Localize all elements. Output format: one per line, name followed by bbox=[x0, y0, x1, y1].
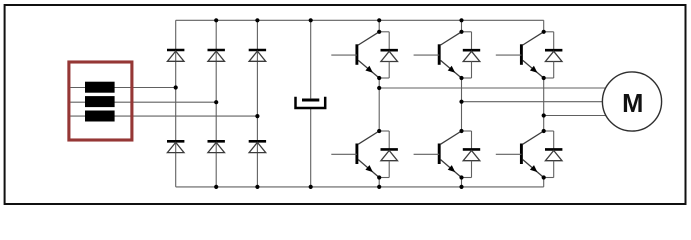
diode D8 bbox=[379, 131, 398, 178]
wire inverter leg 2 upper drop bbox=[461, 20, 463, 32]
wire motor phase 2 output bbox=[462, 101, 608, 103]
diode D11 bbox=[544, 32, 563, 78]
transistor Q1 bbox=[331, 32, 379, 78]
transistor Q3 bbox=[414, 32, 462, 78]
node leg 2 emitter top bbox=[459, 76, 463, 80]
diode D1 bbox=[167, 50, 184, 61]
transistor Q4 bbox=[414, 131, 462, 178]
transistor Q2 bbox=[331, 131, 379, 178]
wire inverter leg 3 upper drop bbox=[543, 20, 545, 32]
diode D4 bbox=[167, 141, 184, 152]
source bar 2 bbox=[85, 96, 115, 107]
node leg 1 emitter top bbox=[377, 76, 381, 80]
diode D6 bbox=[249, 141, 266, 152]
node motor phase 3 tap bbox=[542, 113, 546, 117]
three-phase source box bbox=[69, 62, 132, 140]
transistor Q5 bbox=[496, 32, 544, 78]
capacitor C1 bbox=[296, 97, 326, 108]
node AC phase 3 bbox=[255, 114, 259, 118]
junction bottom rail 5 bbox=[459, 185, 463, 189]
junction top rail 3 bbox=[309, 18, 313, 22]
wire rectifier leg 1 bbox=[175, 20, 177, 187]
node leg 2 collector top bbox=[459, 30, 463, 34]
junction top rail 2 bbox=[255, 18, 259, 22]
source bar 3 bbox=[85, 111, 115, 122]
diode D5 bbox=[208, 141, 225, 152]
junction bottom rail 4 bbox=[377, 185, 381, 189]
wire motor phase 3 output bbox=[544, 115, 608, 117]
wire DC+ top rail bbox=[176, 19, 544, 21]
node leg 3 emitter top bbox=[542, 76, 546, 80]
node leg 3 collector top bbox=[542, 30, 546, 34]
node motor phase 1 tap bbox=[377, 86, 381, 90]
junction top rail 1 bbox=[214, 18, 218, 22]
svg-text:M: M bbox=[622, 90, 643, 118]
wire rectifier leg 2 bbox=[215, 20, 217, 187]
node leg 1 collector top bbox=[377, 30, 381, 34]
junction bottom rail 1 bbox=[214, 185, 218, 189]
wire inverter leg 3 midpoint bbox=[543, 78, 545, 131]
wire motor phase 1 output bbox=[379, 87, 607, 89]
node leg 3 collector bottom bbox=[542, 129, 546, 133]
node AC phase 1 bbox=[174, 85, 178, 89]
wire inverter leg 2 lower drop bbox=[461, 178, 463, 187]
node leg 1 emitter bottom bbox=[377, 175, 381, 179]
junction bottom rail 2 bbox=[255, 185, 259, 189]
wire AC phase 3 input bbox=[70, 115, 257, 117]
diode D7 bbox=[379, 32, 398, 78]
wire inverter leg 2 midpoint bbox=[461, 78, 463, 131]
wire capacitor top lead bbox=[310, 20, 312, 98]
motor M bbox=[602, 72, 661, 131]
junction bottom rail 3 bbox=[309, 185, 313, 189]
wire AC phase 1 input bbox=[70, 87, 175, 89]
node leg 2 emitter bottom bbox=[459, 175, 463, 179]
diode D10 bbox=[462, 131, 481, 178]
wire inverter leg 3 lower drop bbox=[543, 178, 545, 187]
wire rectifier leg 3 bbox=[256, 20, 258, 187]
diode D12 bbox=[544, 131, 563, 178]
wire capacitor bottom lead bbox=[310, 109, 312, 187]
wire inverter leg 1 lower drop bbox=[378, 178, 380, 187]
source bar 1 bbox=[85, 82, 115, 93]
wire inverter leg 1 midpoint bbox=[378, 78, 380, 131]
node leg 2 collector bottom bbox=[459, 129, 463, 133]
wire DC- bottom rail bbox=[176, 186, 544, 188]
wire inverter leg 1 upper drop bbox=[378, 20, 380, 32]
node leg 3 emitter bottom bbox=[542, 175, 546, 179]
transistor Q6 bbox=[496, 131, 544, 178]
node motor phase 2 tap bbox=[459, 100, 463, 104]
diode D2 bbox=[208, 50, 225, 61]
diode D3 bbox=[249, 50, 266, 61]
node leg 1 collector bottom bbox=[377, 129, 381, 133]
diode D9 bbox=[462, 32, 481, 78]
wire AC phase 2 input bbox=[70, 101, 216, 103]
junction top rail 5 bbox=[459, 18, 463, 22]
junction top rail 4 bbox=[377, 18, 381, 22]
node AC phase 2 bbox=[214, 100, 218, 104]
